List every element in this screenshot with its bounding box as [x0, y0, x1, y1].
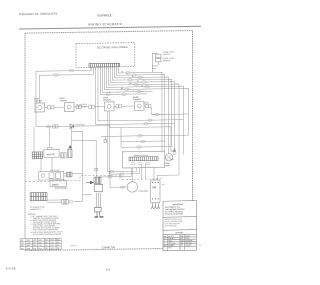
oven light switch S1 — [152, 53, 161, 72]
svg-text:75F: 75F — [21, 240, 24, 242]
wire row2 — [116, 66, 164, 152]
wire row6 — [108, 66, 179, 181]
svg-text:150: 150 — [21, 243, 24, 245]
spark module terminals — [152, 182, 159, 200]
wire row10 — [100, 66, 147, 94]
wire row5 — [110, 66, 174, 150]
svg-text:316441700: 316441700 — [102, 245, 116, 249]
svg-text:1750: 1750 — [38, 245, 42, 247]
latch board connector pin strip — [129, 157, 158, 161]
svg-text:950: 950 — [57, 242, 60, 244]
oven sensor E3 — [105, 102, 115, 111]
svg-text:LEGEND: LEGEND — [175, 232, 183, 234]
connector pair CP2 — [76, 105, 82, 108]
notes rtd table — [20, 238, 61, 250]
svg-text:CONV FAN: CONV FAN — [139, 190, 149, 193]
wire row8 — [104, 66, 188, 137]
wire label oval on cord feed — [94, 168, 98, 170]
wire lower-left run with door switch — [36, 126, 110, 150]
svg-text:550: 550 — [33, 248, 36, 250]
svg-text:1852: 1852 — [38, 242, 42, 244]
power cord conductors — [97, 193, 101, 208]
ignitor row interconnect wires and connectors — [45, 105, 189, 116]
lower left harness connector J3 — [30, 192, 47, 200]
power cord terminal box — [94, 184, 102, 191]
oven door switch S2 symbol — [70, 124, 74, 129]
svg-text:350: 350 — [21, 248, 24, 250]
wires bottom row — [47, 200, 82, 203]
svg-text:VIOLET: VIOLET — [185, 245, 191, 247]
chassis ground arrow left — [68, 145, 72, 157]
wire label oval on lower-left run — [46, 125, 51, 127]
svg-text:LAMP: LAMP — [165, 164, 171, 167]
wire L1 from control to lower left run — [36, 67, 91, 127]
svg-text:2218: 2218 — [50, 242, 54, 244]
gas valve V1 — [39, 171, 64, 180]
svg-text:850: 850 — [45, 248, 48, 250]
convection fan motor B1 — [127, 182, 137, 193]
svg-text:GLGF366CQC: GLGF366CQC — [97, 13, 113, 17]
svg-text:1453: 1453 — [27, 245, 31, 247]
wire row9 — [102, 66, 152, 92]
svg-text:WIRING SCHEMATIC: WIRING SCHEMATIC — [88, 22, 123, 27]
connector pair CP3 — [89, 105, 95, 108]
svg-text:T: T — [164, 247, 165, 249]
svg-text:T: T — [117, 93, 118, 95]
svg-text:GD: GD — [162, 184, 165, 186]
fan-out staircase wires from control pins — [90, 66, 188, 181]
wire label ovals lower runs — [144, 113, 159, 125]
svg-text:1654: 1654 — [38, 240, 42, 242]
connector pair CP7 — [60, 153, 66, 158]
left middle harness connector J2 pin grid — [32, 152, 43, 159]
svg-text:21: 21 — [199, 245, 202, 247]
power cord plug body — [95, 207, 101, 212]
svg-text:IGNITOR: IGNITOR — [34, 101, 42, 103]
svg-text:2026: 2026 — [50, 239, 54, 241]
ground symbol near wire row4 — [173, 148, 177, 154]
pressure regulator box — [50, 180, 67, 186]
latch control board A1 box — [122, 151, 165, 168]
wire label oval on L1 — [69, 69, 74, 71]
warmer element E4 — [135, 101, 145, 110]
svg-text:ELECTRONIC OVEN CONTROL: ELECTRONIC OVEN CONTROL — [97, 47, 129, 49]
svg-text:750: 750 — [45, 245, 48, 247]
chassis ground arrow at power cord — [86, 181, 93, 184]
svg-text:SENSOR: SENSOR — [103, 99, 111, 101]
svg-text:500: 500 — [33, 245, 36, 247]
svg-text:DRAWER: DRAWER — [133, 98, 142, 101]
connector pair CP5 — [144, 102, 152, 108]
svg-text:250: 250 — [21, 245, 24, 247]
junction circle on sensor line — [104, 139, 107, 142]
gas valve connector block — [67, 172, 73, 177]
wire row7 — [106, 66, 183, 156]
svg-text:550: 550 — [45, 239, 48, 241]
rtd table cell text — [21, 239, 60, 250]
svg-text:2026: 2026 — [38, 248, 42, 250]
svg-text:NOTE 3: NOTE 3 — [71, 245, 77, 247]
broil ignitor E2 — [65, 102, 75, 111]
wire row1 — [118, 66, 162, 152]
wire from sensor pins going down — [96, 110, 184, 175]
bake ignitor E1 — [35, 103, 45, 112]
wire label oval bottom row — [69, 200, 73, 203]
svg-text:IGNITOR SW: IGNITOR SW — [77, 106, 88, 108]
svg-text:RESISTANCE SHOWN AT ROOM: RESISTANCE SHOWN AT ROOM — [33, 233, 62, 236]
svg-text:2320: 2320 — [50, 245, 54, 247]
wires from mid row down to gas valve — [34, 126, 52, 171]
svg-text:3W5A: 3W5A — [52, 183, 59, 186]
header rule line — [19, 26, 201, 29]
gas valve output wires — [64, 174, 67, 176]
spark module output pins with arrows — [151, 203, 160, 209]
wire label ovals on staircase — [122, 71, 150, 95]
svg-text:1080: 1080 — [27, 240, 31, 242]
spark module SM box — [151, 180, 160, 203]
svg-text:IGNITOR: IGNITOR — [60, 100, 68, 102]
wires below latch board to power cord — [72, 130, 155, 201]
svg-text:350: 350 — [33, 240, 36, 242]
svg-text:999: 999 — [57, 248, 60, 250]
legend and caution table — [163, 201, 197, 251]
door lock motor M1 box — [44, 147, 59, 157]
svg-text:HARNESS P3: HARNESS P3 — [30, 208, 41, 211]
connector pair CP1 — [48, 106, 55, 109]
wire label ovals below latch board — [108, 170, 125, 188]
wire row3 — [114, 66, 168, 154]
svg-text:MOTOR: MOTOR — [47, 154, 55, 156]
svg-text:SWITCH: SWITCH — [163, 60, 171, 62]
svg-text:980: 980 — [57, 245, 60, 247]
wire L2 from control to bake ignitor — [40, 67, 94, 103]
svg-text:OFF POSITION: OFF POSITION — [165, 225, 178, 227]
connector pair CP6 — [53, 125, 59, 128]
electronic oven control U1 box — [76, 43, 135, 68]
svg-text:900: 900 — [57, 239, 60, 241]
middle bus wires to latch board — [101, 126, 189, 147]
oven lamp DS1 — [165, 154, 172, 162]
svg-text:SWITCH: SWITCH — [163, 54, 171, 56]
plug prongs — [95, 212, 104, 217]
page dashed border frame — [25, 31, 193, 251]
wire label oval on L2 — [54, 74, 59, 76]
svg-text:SM: SM — [152, 185, 156, 189]
svg-text:PLACED AS BEFORE: PLACED AS BEFORE — [165, 212, 184, 215]
pin label ovals inside latch board — [131, 162, 150, 164]
inline connector pair CP8 — [62, 199, 68, 204]
wire code texts on fan rows — [117, 71, 144, 95]
pin stub wires — [89, 67, 91, 69]
svg-text:2490: 2490 — [50, 248, 54, 250]
svg-text:650: 650 — [45, 242, 48, 244]
regulator lower strip — [55, 187, 66, 189]
svg-text:1654: 1654 — [27, 248, 31, 250]
wire row4 — [112, 66, 171, 148]
svg-text:1246: 1246 — [27, 242, 31, 244]
power cord hatched connector — [94, 177, 101, 183]
svg-text:450: 450 — [33, 242, 36, 244]
svg-text:1-6: 1-6 — [106, 268, 110, 272]
svg-text:Publication No: 5995441679: Publication No: 5995441679 — [19, 12, 57, 17]
oven control connector P1 pin strip — [89, 63, 119, 67]
wire label ovals middle bus — [137, 135, 146, 149]
svg-text:DOOR SW: DOOR SW — [76, 124, 85, 126]
svg-text:6/03B: 6/03B — [6, 267, 16, 271]
connector pair CP4 — [116, 105, 122, 108]
chassis dashed separator line — [25, 174, 162, 181]
